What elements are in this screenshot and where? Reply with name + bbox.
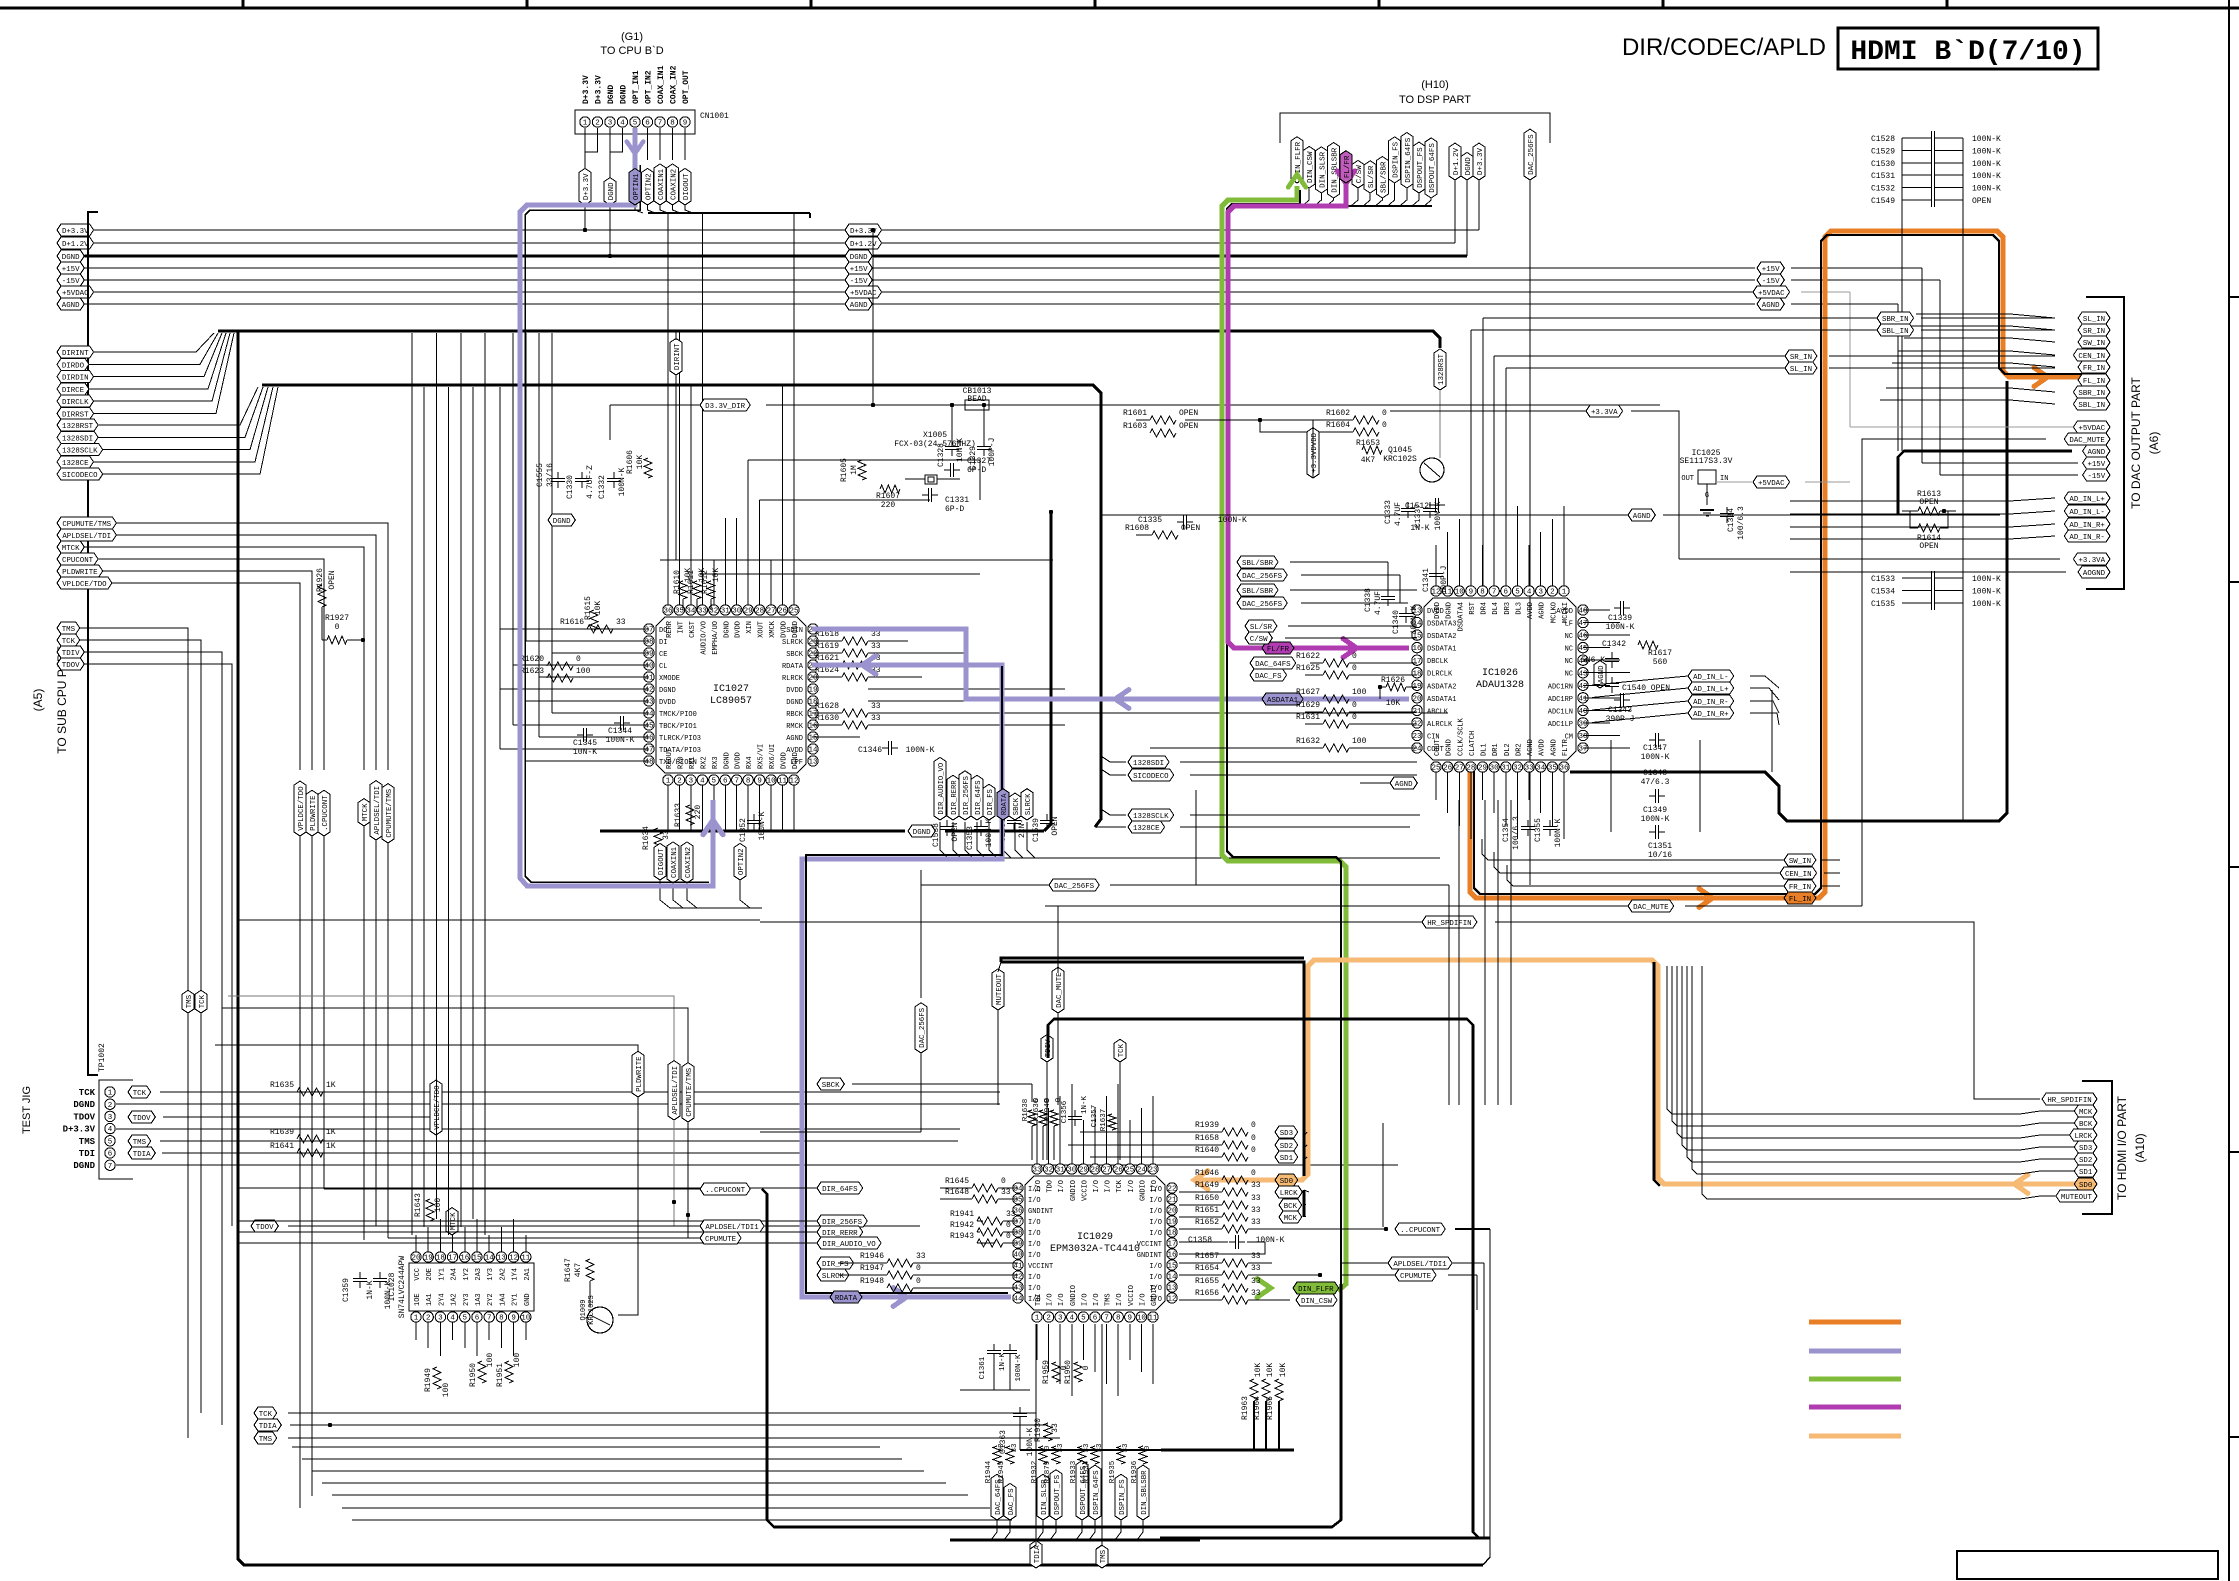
svg-text:DIGOUT: DIGOUT bbox=[658, 848, 666, 875]
wire hook T2 to 1328SDI bbox=[1101, 756, 1126, 762]
svg-text:CPUMUTE: CPUMUTE bbox=[705, 1236, 737, 1244]
svg-text:I/O: I/O bbox=[1028, 1197, 1041, 1205]
net tag +5VDAC mid bbox=[1753, 476, 1790, 488]
svg-text:1: 1 bbox=[666, 778, 671, 786]
wire DIR_AUDIO_VO down-bend bbox=[940, 822, 1440, 858]
svg-text:41: 41 bbox=[1578, 695, 1588, 703]
svg-text:33: 33 bbox=[1525, 765, 1535, 773]
IC1028 pin 17 bbox=[447, 1252, 457, 1262]
svg-text:R1647: R1647 bbox=[564, 1258, 573, 1282]
net tag MUTEOUT A10 bbox=[2056, 1190, 2097, 1202]
svg-text:KRC102S: KRC102S bbox=[1383, 455, 1417, 464]
svg-text:6: 6 bbox=[645, 120, 650, 128]
svg-text:AGND: AGND bbox=[850, 302, 868, 310]
svg-text:R1965: R1965 bbox=[1266, 1396, 1275, 1420]
svg-text:47: 47 bbox=[644, 747, 653, 755]
svg-text:R1622: R1622 bbox=[1296, 652, 1320, 661]
svg-text:AD_IN_L+: AD_IN_L+ bbox=[2069, 496, 2105, 504]
svg-text:10: 10 bbox=[1455, 589, 1465, 597]
svg-text:OPEN: OPEN bbox=[328, 570, 337, 589]
svg-text:OPT_OUT: OPT_OUT bbox=[682, 70, 691, 104]
svg-text:15: 15 bbox=[472, 1255, 482, 1263]
rotated net tag DSPIN_64FS bottom bbox=[1089, 1465, 1101, 1520]
IC1026 pin 44 bbox=[1578, 655, 1588, 665]
svg-text:100N-K: 100N-K bbox=[1972, 600, 2001, 609]
svg-text:AD_IN_L-: AD_IN_L- bbox=[2069, 509, 2104, 517]
svg-text:TMS: TMS bbox=[186, 994, 194, 1008]
svg-text:R1617: R1617 bbox=[1648, 649, 1672, 658]
svg-text:OPTIN1: OPTIN1 bbox=[633, 173, 641, 200]
svg-text:-15V: -15V bbox=[1762, 278, 1780, 286]
wires verticals from A6 rows to IC1026 top bbox=[1482, 318, 1484, 586]
net tag DIR_RERR left of IC1029 bbox=[817, 1226, 863, 1238]
svg-text:2OE: 2OE bbox=[426, 1268, 434, 1281]
wire 1328SCLK to bus T2 bbox=[103, 387, 268, 450]
svg-text:DIRCLK: DIRCLK bbox=[62, 399, 89, 407]
svg-text:LF: LF bbox=[1565, 621, 1573, 629]
svg-text:R1603: R1603 bbox=[1123, 422, 1147, 431]
svg-text:GNDINT: GNDINT bbox=[1137, 1252, 1162, 1260]
svg-text:VCCIO: VCCIO bbox=[1081, 1180, 1089, 1201]
svg-text:R1936: R1936 bbox=[1131, 1460, 1139, 1483]
svg-text:17: 17 bbox=[1412, 658, 1421, 666]
svg-text:100N-K: 100N-K bbox=[1410, 605, 1419, 634]
svg-text:9: 9 bbox=[511, 1315, 516, 1323]
svg-text:SN74LVC244APW: SN74LVC244APW bbox=[398, 1256, 407, 1319]
IC1028 pin 2 bbox=[423, 1312, 433, 1322]
svg-text:TDIA: TDIA bbox=[259, 1423, 277, 1431]
svg-text:33: 33 bbox=[698, 608, 708, 616]
svg-text:AGND: AGND bbox=[62, 302, 80, 310]
svg-text:8: 8 bbox=[499, 1315, 504, 1323]
svg-text:C1555: C1555 bbox=[536, 463, 545, 487]
svg-text:0: 0 bbox=[1352, 713, 1357, 722]
bracket H10 bbox=[1280, 113, 1550, 143]
svg-text:R1950: R1950 bbox=[469, 1363, 478, 1387]
svg-text:SBR_IN: SBR_IN bbox=[2078, 390, 2105, 398]
IC1028 pin 4 bbox=[447, 1312, 457, 1322]
bus thick TCK loop bbox=[1048, 1019, 1479, 1538]
rotated net tag DGND H10 bbox=[1461, 152, 1473, 180]
IC1027 pin 8 bbox=[743, 775, 753, 785]
rotated net tag MUTEOUT vertical bbox=[992, 969, 1004, 1010]
highlight route light orange SD0 bbox=[1196, 960, 2086, 1184]
rotated net tag DAC_64FS bottom bbox=[991, 1474, 1003, 1520]
border tick top bbox=[1662, 0, 1665, 8]
IC1027 pin 33 bbox=[697, 605, 707, 615]
IC1027 pin 41 bbox=[644, 672, 654, 682]
wires SD3 SD2 SD1 hooks to vertical bbox=[1304, 1132, 1307, 1136]
rotated net tag TCK mid bbox=[195, 990, 207, 1013]
svg-text:HDMI B`D(7/10): HDMI B`D(7/10) bbox=[1850, 37, 2085, 68]
IC1029 pin 44 bbox=[1013, 1293, 1023, 1303]
svg-text:SL_IN: SL_IN bbox=[1790, 366, 1812, 374]
svg-text:SD0: SD0 bbox=[1280, 1178, 1293, 1186]
svg-text:33: 33 bbox=[1251, 1264, 1261, 1273]
svg-text:4: 4 bbox=[1527, 589, 1532, 597]
wires IC1029 bottom pins bbox=[1036, 1324, 1038, 1360]
svg-text:18: 18 bbox=[436, 1255, 445, 1263]
svg-text:TDI: TDI bbox=[79, 1149, 95, 1159]
svg-text:26: 26 bbox=[1114, 1167, 1124, 1175]
svg-text:DAC_256FS: DAC_256FS bbox=[1242, 573, 1282, 581]
svg-text:DGND: DGND bbox=[1446, 602, 1454, 619]
svg-text:45: 45 bbox=[644, 723, 654, 731]
svg-text:39: 39 bbox=[1013, 1241, 1022, 1249]
svg-text:D+3.3V: D+3.3V bbox=[63, 1125, 96, 1135]
IC1027 pin 23 bbox=[808, 636, 818, 646]
svg-text:DVDD: DVDD bbox=[735, 752, 743, 769]
svg-text:33: 33 bbox=[1122, 1443, 1130, 1453]
IC1027 pin 32 bbox=[709, 605, 719, 615]
svg-text:16: 16 bbox=[460, 1255, 470, 1263]
IC1026 pin 16 bbox=[1412, 642, 1422, 652]
wire D3.3V_DIR verticals bbox=[951, 405, 953, 440]
border tick right bbox=[2229, 1436, 2239, 1438]
IC1027 pin 15 bbox=[808, 732, 818, 742]
svg-text:R1951: R1951 bbox=[496, 1363, 505, 1387]
svg-text:C1532: C1532 bbox=[1871, 185, 1895, 194]
svg-text:48: 48 bbox=[644, 759, 653, 767]
wires IC1027 top pins up bbox=[667, 213, 669, 605]
svg-text:R1879: R1879 bbox=[1044, 1461, 1052, 1484]
svg-text:40: 40 bbox=[644, 663, 654, 671]
rotated net tag DIN_SLSR H10 bbox=[1315, 147, 1327, 193]
svg-text:RMCK: RMCK bbox=[786, 723, 804, 731]
svg-text:AUDIO/VO: AUDIO/VO bbox=[700, 621, 708, 655]
svg-text:DLRCLK: DLRCLK bbox=[1427, 671, 1453, 679]
svg-text:100N-K: 100N-K bbox=[1972, 587, 2001, 596]
svg-text:R1637: R1637 bbox=[1100, 1109, 1108, 1132]
net tag DIR_64FS left of IC1029 bbox=[817, 1182, 863, 1194]
ground sym near C1334 bbox=[1700, 509, 1714, 511]
border tick top bbox=[1946, 0, 1949, 8]
svg-text:COAX_IN1: COAX_IN1 bbox=[657, 65, 666, 104]
svg-text:TBCK/PIO1: TBCK/PIO1 bbox=[659, 723, 697, 731]
svg-text:10N-K: 10N-K bbox=[956, 438, 965, 462]
svg-text:22: 22 bbox=[1412, 721, 1421, 729]
net tag LRCK A10 bbox=[2070, 1129, 2097, 1141]
svg-text:TMCK/PIO0: TMCK/PIO0 bbox=[659, 711, 697, 719]
IC1027 pin 20 bbox=[808, 672, 818, 682]
rotated net tag DSPIN_FS bottom bbox=[1115, 1474, 1127, 1520]
rotated net tag DIGOUT bbox=[654, 843, 666, 880]
svg-text:2: 2 bbox=[677, 778, 682, 786]
svg-text:NC: NC bbox=[1565, 671, 1573, 679]
svg-text:1: 1 bbox=[414, 1315, 419, 1323]
net tag CEN_IN A6 bbox=[2073, 349, 2110, 361]
IC1029 pin 41 bbox=[1013, 1260, 1023, 1270]
IC1026 pin 28 bbox=[1466, 762, 1476, 772]
IC1029 pin 8 bbox=[1113, 1312, 1123, 1322]
rotated net tag APLDSEL/TDI column bbox=[370, 781, 382, 840]
svg-text:SBL_IN: SBL_IN bbox=[2078, 402, 2105, 410]
wire vertical 1484 bbox=[1483, 1263, 1485, 1538]
svg-text:DAC_MUTE: DAC_MUTE bbox=[2069, 437, 2105, 445]
svg-text:+15V: +15V bbox=[1762, 266, 1780, 274]
wire TDIV right and down bbox=[84, 652, 222, 1000]
wire DAC_256FS long vertical bbox=[1529, 180, 1531, 885]
svg-text:TLRCK/PIO3: TLRCK/PIO3 bbox=[659, 735, 701, 743]
svg-text:LRCK: LRCK bbox=[1280, 1190, 1298, 1198]
svg-text:C1337: C1337 bbox=[1414, 504, 1423, 528]
IC1027 pin 14 bbox=[808, 744, 818, 754]
svg-text:DVDD: DVDD bbox=[786, 687, 803, 695]
svg-text:43: 43 bbox=[644, 699, 654, 707]
net tag 1328SDI mid bbox=[1128, 756, 1169, 768]
IC1029 pin 12 bbox=[1167, 1293, 1177, 1303]
svg-text:4.7UF: 4.7UF bbox=[1374, 591, 1383, 615]
wire DIRCLK to bus T1 bbox=[94, 333, 230, 401]
IC1029 pin 31 bbox=[1055, 1164, 1065, 1174]
svg-text:0: 0 bbox=[1006, 1221, 1011, 1230]
svg-text:26: 26 bbox=[778, 608, 788, 616]
svg-text:(G1): (G1) bbox=[621, 31, 643, 43]
net tag AD_IN_L- mid bbox=[1688, 670, 1734, 682]
rotated net tag SBL/SBR H10 bbox=[1376, 156, 1388, 198]
IC1027 pin 34 bbox=[686, 605, 696, 615]
net tag 1328SDI bbox=[57, 431, 98, 443]
net tag DIRDIN bbox=[57, 371, 94, 383]
svg-text:I/O: I/O bbox=[1047, 1293, 1055, 1306]
svg-text:C1357: C1357 bbox=[1091, 1105, 1099, 1128]
svg-text:DIR_64FS: DIR_64FS bbox=[822, 1186, 858, 1194]
svg-text:MCK: MCK bbox=[2079, 1109, 2093, 1117]
IC1029 pin 36 bbox=[1013, 1205, 1023, 1215]
svg-text:33: 33 bbox=[1006, 1210, 1016, 1219]
svg-text:RX3: RX3 bbox=[712, 756, 720, 769]
IC1027 pin 40 bbox=[644, 660, 654, 670]
svg-text:4K7: 4K7 bbox=[1361, 456, 1376, 465]
rotated net tag C/SW H10 bbox=[1352, 160, 1364, 188]
svg-text:32: 32 bbox=[1044, 1167, 1053, 1175]
svg-text:R1927: R1927 bbox=[325, 614, 349, 623]
wire AGND rail right part bbox=[872, 303, 1755, 305]
svg-text:I/O: I/O bbox=[1149, 1230, 1162, 1238]
svg-text:2Y1: 2Y1 bbox=[512, 1293, 520, 1306]
svg-text:11: 11 bbox=[521, 1255, 531, 1263]
svg-text:D+3.3V: D+3.3V bbox=[595, 75, 604, 104]
IC1026 pin 3 bbox=[1536, 586, 1546, 596]
IC1028 pin 12 bbox=[508, 1252, 518, 1262]
svg-text:10K: 10K bbox=[1279, 1363, 1288, 1378]
rotated net tag DSPOUT_FS H10 bbox=[1413, 142, 1425, 193]
net tag TDIV bbox=[57, 646, 84, 658]
svg-text:16: 16 bbox=[1412, 645, 1422, 653]
svg-text:C1328: C1328 bbox=[937, 443, 946, 467]
svg-text:AD_IN_R+: AD_IN_R+ bbox=[1693, 711, 1729, 719]
IC1029 pin 39 bbox=[1013, 1238, 1023, 1248]
rotated net tag DSPOUT_FS bottom bbox=[1050, 1470, 1062, 1520]
svg-text:GNDIO: GNDIO bbox=[1070, 1180, 1078, 1201]
IC1026 pin 8 bbox=[1477, 586, 1487, 596]
wire CPUMUTE mid column down bbox=[687, 1122, 689, 1238]
svg-text:DIR_64FS: DIR_64FS bbox=[975, 780, 983, 815]
rotated net tag TCK vertical mid bbox=[1114, 1039, 1126, 1062]
net tag DGND bus bbox=[908, 825, 935, 837]
IC1027 pin 12 bbox=[789, 775, 799, 785]
IC1028 pin 3 bbox=[435, 1312, 445, 1322]
svg-text:AGND: AGND bbox=[1395, 781, 1413, 789]
svg-text:VCC: VCC bbox=[414, 1268, 422, 1281]
CN1001 pin 6 bbox=[642, 117, 652, 127]
svg-text:100N-K: 100N-K bbox=[1256, 1236, 1285, 1245]
svg-text:43: 43 bbox=[1013, 1285, 1023, 1293]
svg-text:I/O: I/O bbox=[1028, 1219, 1041, 1227]
svg-text:GND: GND bbox=[524, 1293, 532, 1306]
net tag TMS bottom bbox=[254, 1432, 277, 1444]
IC1027 pin 13 bbox=[808, 756, 818, 766]
svg-text:TDATA/PIO3: TDATA/PIO3 bbox=[659, 747, 701, 755]
net tag SR_IN A6 bbox=[2078, 324, 2110, 336]
rotated net tag DIR_AUDIO_VO bbox=[934, 757, 946, 820]
IC1028 pin 19 bbox=[423, 1252, 433, 1262]
svg-text:100P-J: 100P-J bbox=[1440, 566, 1449, 595]
highlight route purple OPTIN1 from CN1001 bbox=[520, 128, 713, 886]
wire 1328SDI to bus T2 bbox=[98, 387, 263, 437]
wire hook T2 to 1328CE bbox=[1095, 826, 1126, 828]
net tag 1328CE bbox=[57, 456, 94, 468]
svg-text:I/O: I/O bbox=[1028, 1241, 1041, 1249]
svg-text:R1616: R1616 bbox=[560, 618, 584, 627]
wire row to PLDWRITE mid column bbox=[215, 1045, 638, 1061]
svg-text:DIR_256FS: DIR_256FS bbox=[963, 776, 971, 815]
svg-text:R1615: R1615 bbox=[584, 596, 593, 620]
wire C/SW to bus bbox=[1351, 188, 1358, 206]
IC1029 pin 23 bbox=[1148, 1164, 1158, 1174]
svg-text:1M: 1M bbox=[850, 465, 859, 475]
border tick top bbox=[526, 0, 529, 8]
svg-text:20: 20 bbox=[1412, 695, 1422, 703]
svg-text:2: 2 bbox=[108, 1102, 113, 1110]
wire DIR_64FS down-bend bbox=[977, 822, 1440, 858]
net tag SICODECO bbox=[57, 468, 103, 480]
svg-text:MCK: MCK bbox=[1284, 1215, 1298, 1223]
svg-text:R1621: R1621 bbox=[815, 654, 839, 663]
rotated net tag FL/FR magenta overlay bbox=[1340, 151, 1352, 183]
svg-text:DSPOUT_64FS: DSPOUT_64FS bbox=[1429, 143, 1437, 193]
bracket TO DAC OUTPUT PART (A6) bbox=[2086, 297, 2124, 589]
svg-text:14: 14 bbox=[1167, 1274, 1177, 1282]
IC1029 pin 11 bbox=[1148, 1312, 1158, 1322]
wire DSPOUT_64FS to bus bbox=[1424, 198, 1431, 206]
svg-text:5: 5 bbox=[108, 1138, 113, 1146]
net tag TCK bbox=[57, 634, 80, 646]
svg-text:R1649: R1649 bbox=[1195, 1181, 1219, 1190]
IC1026 pin 35 bbox=[1547, 762, 1557, 772]
wire IC1027 left pin riser bbox=[538, 333, 540, 737]
svg-text:43: 43 bbox=[1578, 670, 1588, 678]
svg-text:1Y4: 1Y4 bbox=[512, 1268, 520, 1281]
svg-text:R1947: R1947 bbox=[860, 1264, 884, 1273]
svg-text:OPEN: OPEN bbox=[1972, 197, 1991, 206]
net tag MCK at IC1029 bbox=[1279, 1211, 1302, 1223]
svg-text:SBL_IN: SBL_IN bbox=[1882, 328, 1909, 336]
IC1027 pin 30 bbox=[732, 605, 742, 615]
net tag DIN_FLFR green at IC1029 bbox=[1293, 1282, 1339, 1294]
svg-text:16: 16 bbox=[808, 723, 818, 731]
node DGND drop from CN1001 bbox=[609, 152, 611, 256]
svg-text:+15V: +15V bbox=[850, 266, 868, 274]
svg-text:33: 33 bbox=[871, 702, 881, 711]
rotated net tag COAXIN2 bbox=[681, 842, 693, 883]
svg-text:40: 40 bbox=[1013, 1252, 1023, 1260]
wire D+1.2V rail right part bbox=[882, 242, 1455, 244]
net tag AGND A6 bbox=[2083, 445, 2110, 457]
svg-text:DIRDO: DIRDO bbox=[62, 362, 85, 370]
net tag +5VDAC right bbox=[1753, 286, 1790, 298]
svg-text:DGND: DGND bbox=[608, 182, 616, 200]
svg-text:44: 44 bbox=[644, 711, 654, 719]
rotated net tag DAC_256FS H10 bbox=[1524, 129, 1536, 180]
IC1029 pin 33 bbox=[1032, 1164, 1042, 1174]
svg-text:I/O: I/O bbox=[1149, 1285, 1162, 1293]
svg-text:R1941: R1941 bbox=[950, 1210, 974, 1219]
wire C-stack right rail bbox=[1962, 138, 1964, 200]
svg-text:DIR_FS: DIR_FS bbox=[822, 1261, 849, 1269]
IC1026 pin 32 bbox=[1512, 762, 1522, 772]
net tag FL_IN A6 bbox=[2078, 374, 2110, 386]
net tag C/SW at IC1026 bbox=[1245, 632, 1272, 644]
svg-text:DGND: DGND bbox=[723, 621, 731, 638]
svg-text:SD2: SD2 bbox=[1280, 1143, 1293, 1151]
svg-text:CPUCONT: CPUCONT bbox=[62, 557, 94, 565]
IC1026 pin 7 bbox=[1489, 586, 1499, 596]
svg-text:26: 26 bbox=[1443, 765, 1453, 773]
IC1026 pin 41 bbox=[1578, 693, 1588, 703]
net tag TCK test jig bbox=[128, 1086, 151, 1098]
svg-text:1N-K: 1N-K bbox=[1081, 1096, 1089, 1115]
svg-text:10/16: 10/16 bbox=[1648, 851, 1672, 860]
wire 1328RST to bus T2 bbox=[98, 387, 258, 425]
svg-text:R1601: R1601 bbox=[1123, 409, 1147, 418]
wire long vertical right of crystal area bbox=[872, 230, 874, 405]
svg-text:35: 35 bbox=[1548, 765, 1558, 773]
svg-text:COAX_IN2: COAX_IN2 bbox=[670, 65, 679, 104]
svg-text:31: 31 bbox=[1501, 765, 1511, 773]
wire D+1.2V rail bbox=[94, 242, 845, 244]
svg-text:1OE: 1OE bbox=[414, 1293, 422, 1306]
svg-text:0: 0 bbox=[1044, 1445, 1052, 1450]
svg-text:R1658: R1658 bbox=[1195, 1134, 1219, 1143]
net tag SBL_IN mid bbox=[1877, 324, 1914, 336]
svg-text:21: 21 bbox=[1167, 1197, 1177, 1205]
IC1029 pin 6 bbox=[1090, 1312, 1100, 1322]
IC1029 pin 13 bbox=[1167, 1282, 1177, 1292]
svg-text:1Y2: 1Y2 bbox=[463, 1268, 471, 1281]
IC1029 pin 22 bbox=[1167, 1183, 1177, 1193]
rotated net tag DIN_SBLSBR H10 bbox=[1328, 143, 1340, 199]
svg-text:1K: 1K bbox=[326, 1142, 336, 1151]
svg-text:33: 33 bbox=[1251, 1218, 1261, 1227]
svg-text:TDIV: TDIV bbox=[62, 650, 80, 658]
svg-text:AD_IN_R-: AD_IN_R- bbox=[2069, 534, 2104, 542]
net tag PLDWRITE bbox=[57, 565, 103, 577]
border tick right bbox=[2229, 296, 2239, 298]
svg-text:R1606: R1606 bbox=[626, 450, 635, 474]
wire +15V rail right part bbox=[872, 267, 1755, 269]
svg-text:27: 27 bbox=[1455, 765, 1464, 773]
svg-text:DAC_256FS: DAC_256FS bbox=[1528, 134, 1536, 175]
rotated net tag PLDWRITE mid bbox=[632, 1051, 644, 1097]
svg-text:(H10): (H10) bbox=[1421, 79, 1449, 91]
svg-text:10: 10 bbox=[1137, 1315, 1147, 1323]
net tag DGND centre rail bbox=[845, 250, 872, 262]
svg-text:1328RST: 1328RST bbox=[1438, 353, 1446, 385]
net tag AD_IN_L- A6 bbox=[2064, 505, 2110, 517]
svg-text:39: 39 bbox=[644, 651, 653, 659]
IC1026 pin 30 bbox=[1489, 762, 1499, 772]
